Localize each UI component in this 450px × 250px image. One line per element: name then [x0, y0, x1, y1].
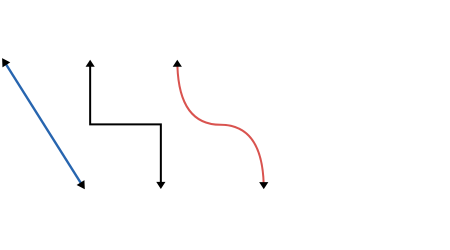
elbow connector top arrowhead — [86, 60, 95, 67]
elbow connector bottom arrowhead — [156, 182, 165, 189]
red curve bottom arrowhead — [259, 182, 268, 189]
blue line top arrowhead — [2, 58, 10, 67]
blue line bottom arrowhead — [77, 180, 85, 189]
blue diagonal line — [6, 64, 81, 183]
black elbow connector wire — [90, 66, 161, 183]
red curve top arrowhead — [173, 60, 182, 67]
red S-curve wire — [177, 66, 263, 183]
